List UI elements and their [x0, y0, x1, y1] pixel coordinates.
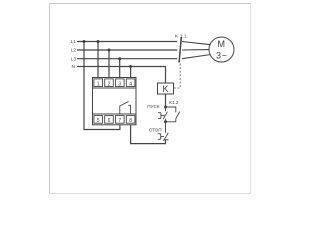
svg-text:6: 6 — [108, 118, 111, 124]
wire L2 to terminal 2 — [108, 50, 110, 78]
wire L1 to terminal 1 — [97, 42, 99, 79]
wire terminal 8 to stop button — [131, 125, 166, 144]
terminal 6 — [105, 116, 114, 124]
svg-text:2: 2 — [108, 81, 111, 87]
wire L1 down around to terminal 7 — [84, 42, 120, 130]
wire L2 contact to motor — [182, 49, 209, 51]
svg-text:M: M — [218, 39, 226, 49]
svg-text:K 1.1: K 1.1 — [175, 33, 187, 39]
node L3-terminal3 — [118, 57, 121, 60]
svg-text:4: 4 — [129, 81, 132, 87]
svg-text:L2: L2 — [71, 48, 77, 54]
wire N bus to coil K — [77, 67, 166, 84]
frame border — [50, 4, 251, 194]
svg-text:7: 7 — [118, 118, 121, 124]
wire N to terminal 4 — [130, 67, 132, 79]
svg-text:K: K — [162, 84, 168, 94]
svg-text:N: N — [72, 64, 76, 70]
wire coil K to start node — [165, 94, 167, 107]
terminal 3 — [116, 79, 125, 87]
node bottom of start button — [164, 120, 167, 123]
relay device body — [93, 78, 137, 125]
svg-text:K1.2: K1.2 — [169, 100, 179, 105]
svg-text:3~: 3~ — [216, 50, 227, 60]
svg-text:1: 1 — [97, 81, 100, 87]
terminal 5 — [94, 116, 103, 124]
internal output contact between terminals 7 and 8 — [120, 102, 131, 114]
terminal 2 — [105, 79, 114, 87]
terminal 1 — [94, 79, 103, 87]
svg-text:L3: L3 — [71, 56, 77, 62]
node L1-terminal1 — [97, 40, 100, 43]
svg-text:5: 5 — [97, 118, 100, 124]
contactor main contacts K1.1 — [179, 37, 181, 62]
terminal 4 — [126, 79, 135, 87]
node top of start button — [164, 106, 167, 109]
wire L3 contact to motor — [182, 55, 211, 59]
auxiliary contact K1.2 (NO, parallel with start) — [166, 107, 180, 122]
terminal 7 — [116, 116, 125, 124]
node N-terminal4 — [129, 65, 132, 68]
mechanical linkage dashed — [174, 64, 180, 89]
svg-text:L1: L1 — [71, 39, 77, 45]
wire L1 contact to motor — [182, 42, 211, 45]
wire L1 bus — [77, 41, 177, 43]
svg-text:СТОП: СТОП — [149, 127, 162, 132]
wire L2 bus — [77, 49, 177, 51]
pushbutton STOP (NC) — [158, 122, 169, 141]
svg-text:3: 3 — [118, 81, 121, 87]
motor M 3~ — [209, 37, 234, 62]
wire L3 bus — [77, 58, 177, 60]
node L2-terminal2 — [108, 49, 111, 52]
svg-text:ПУСК: ПУСК — [147, 104, 160, 109]
wire L3 to terminal 3 — [119, 59, 121, 78]
svg-text:8: 8 — [129, 118, 132, 124]
node L1-left drop — [83, 40, 86, 43]
terminal 8 — [126, 116, 135, 124]
contactor coil K — [158, 83, 174, 94]
pushbutton PUSK (start, NO) — [158, 107, 168, 122]
